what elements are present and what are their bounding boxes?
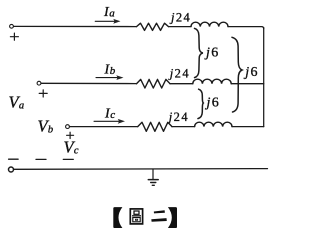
mutual coupling brace a-b [195, 28, 203, 77]
mutual coupling brace a-c [232, 37, 242, 112]
current arrow Ia [95, 19, 120, 24]
caption right lenticular bracket [168, 207, 177, 228]
caption character tu (figure) [130, 209, 142, 224]
svg-text:j24: j24 [169, 10, 191, 24]
svg-text:Vc: Vc [64, 138, 79, 157]
wire phase a horizontal [14, 25, 137, 27]
minus sign phase c [63, 158, 73, 160]
svg-text:Ic: Ic [104, 106, 115, 121]
svg-text:j24: j24 [168, 67, 190, 81]
inductor phase c [195, 122, 232, 126]
svg-text:j24: j24 [167, 110, 189, 124]
wire phase c horizontal [70, 126, 138, 128]
plus sign phase a [10, 33, 18, 40]
wire inductor to neutral phase c [232, 126, 264, 128]
ground [148, 169, 158, 185]
terminal neutral return [9, 167, 14, 172]
resistor phase a (j24 branch) [137, 23, 169, 30]
resistor phase c (j24 branch) [138, 122, 172, 131]
caption character er (two) [151, 210, 167, 221]
wire phase b horizontal [41, 82, 136, 84]
terminal phase a (Va +) [10, 24, 14, 28]
current arrow Ib [96, 75, 124, 80]
svg-text:j6: j6 [205, 96, 221, 111]
svg-text:Ib: Ib [104, 62, 116, 77]
minus sign phase a [9, 158, 19, 160]
terminal phase b (Vb +) [37, 81, 41, 85]
wire inductor to neutral phase a [228, 27, 264, 29]
current arrow Ic [94, 119, 125, 124]
svg-text:j6: j6 [243, 65, 259, 80]
caption left lenticular bracket [113, 207, 122, 228]
svg-text:Vb: Vb [38, 117, 54, 136]
wire resistor to inductor phase b [170, 83, 193, 85]
inductor phase a [191, 22, 228, 26]
wire resistor to inductor phase c [172, 126, 195, 128]
svg-text:j6: j6 [204, 46, 220, 61]
wire inductor to neutral phase b [231, 83, 264, 85]
svg-text:Ia: Ia [103, 5, 115, 20]
wire neutral vertical (load star point) [263, 28, 265, 127]
inductor phase b [193, 79, 231, 84]
wire neutral return [14, 168, 268, 171]
plus sign phase b [39, 90, 47, 97]
resistor phase b (j24 branch) [137, 79, 171, 88]
plus sign phase c [67, 132, 74, 138]
svg-text:Va: Va [9, 93, 25, 112]
mutual coupling brace b-c [198, 89, 203, 118]
terminal phase c (Vc +) [66, 125, 70, 129]
wire resistor to inductor phase a [169, 26, 192, 28]
minus sign phase b [36, 158, 46, 160]
